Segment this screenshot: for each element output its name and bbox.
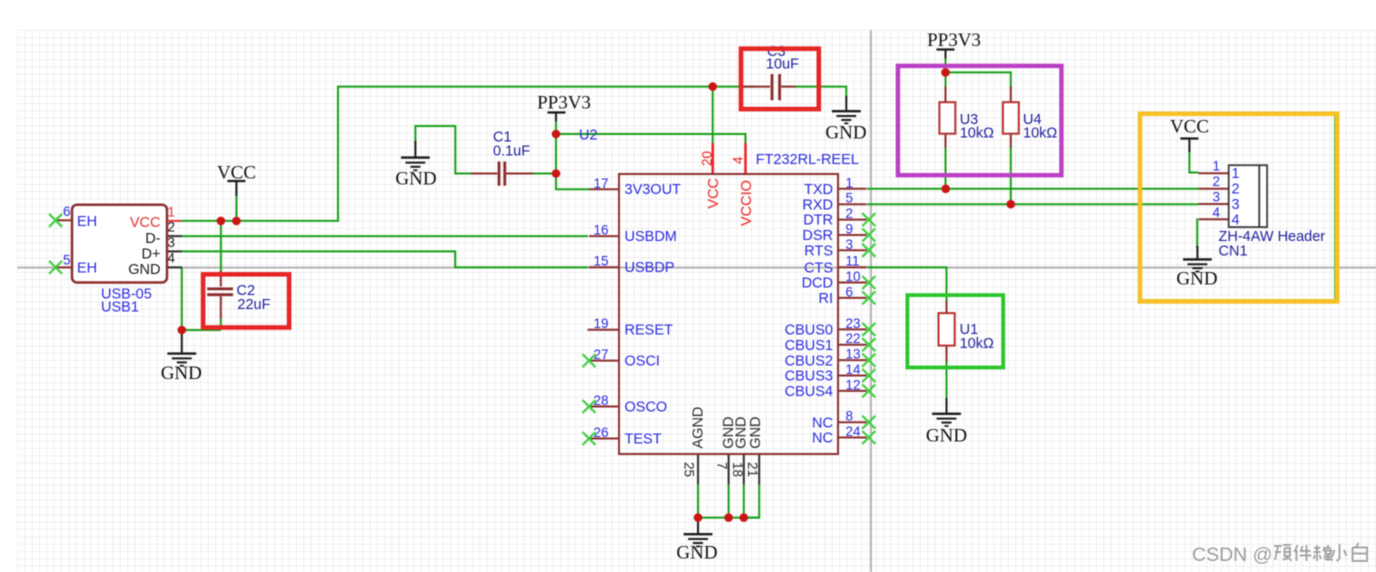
svg-text:8: 8 — [846, 409, 854, 424]
svg-text:GND: GND — [733, 416, 749, 448]
svg-text:25: 25 — [682, 462, 697, 477]
svg-text:6: 6 — [63, 204, 71, 219]
svg-text:USBDM: USBDM — [625, 229, 677, 245]
svg-text:GND: GND — [161, 363, 202, 384]
svg-text:15: 15 — [593, 254, 608, 269]
svg-text:VCCIO: VCCIO — [739, 180, 755, 226]
svg-text:TXD: TXD — [804, 182, 833, 198]
svg-text:10uF: 10uF — [766, 57, 799, 73]
svg-text:4: 4 — [1212, 205, 1220, 220]
svg-text:DTR: DTR — [803, 213, 833, 229]
svg-text:27: 27 — [593, 347, 608, 362]
svg-text:TEST: TEST — [625, 432, 662, 448]
svg-text:26: 26 — [593, 425, 608, 440]
svg-text:12: 12 — [846, 377, 861, 392]
svg-text:D+: D+ — [142, 247, 161, 263]
svg-text:USB1: USB1 — [101, 300, 139, 316]
svg-text:GND: GND — [825, 123, 866, 144]
svg-text:GND: GND — [128, 262, 160, 278]
svg-text:FT232RL-REEL: FT232RL-REEL — [756, 152, 859, 168]
svg-text:1: 1 — [1212, 159, 1220, 174]
svg-text:CBUS1: CBUS1 — [785, 338, 833, 354]
svg-text:3: 3 — [1232, 197, 1240, 213]
svg-text:GND: GND — [748, 416, 764, 448]
svg-text:RXD: RXD — [802, 198, 833, 214]
svg-text:22: 22 — [846, 331, 861, 346]
svg-text:CBUS2: CBUS2 — [785, 354, 833, 370]
svg-text:OSCI: OSCI — [625, 354, 660, 370]
svg-text:AGND: AGND — [691, 407, 707, 449]
svg-text:NC: NC — [812, 431, 833, 447]
svg-text:CN1: CN1 — [1219, 244, 1248, 260]
svg-text:3: 3 — [168, 235, 176, 250]
svg-text:DSR: DSR — [802, 228, 833, 244]
svg-text:20: 20 — [699, 151, 714, 166]
svg-text:9: 9 — [846, 222, 854, 237]
svg-text:2: 2 — [846, 206, 854, 221]
svg-text:GND: GND — [676, 543, 717, 564]
svg-text:0.1uF: 0.1uF — [493, 144, 530, 160]
svg-text:EH: EH — [77, 261, 97, 277]
svg-text:5: 5 — [846, 191, 854, 206]
svg-text:GND: GND — [395, 169, 436, 190]
svg-text:1: 1 — [846, 175, 854, 190]
svg-text:4: 4 — [168, 251, 176, 266]
svg-text:RESET: RESET — [625, 323, 673, 339]
svg-text:CBUS4: CBUS4 — [785, 384, 833, 400]
svg-text:17: 17 — [593, 176, 608, 191]
svg-text:PP3V3: PP3V3 — [537, 93, 591, 114]
svg-text:23: 23 — [846, 316, 861, 331]
svg-text:EH: EH — [77, 214, 97, 230]
svg-text:1: 1 — [1232, 166, 1240, 182]
svg-text:10kΩ: 10kΩ — [960, 336, 994, 352]
svg-text:RTS: RTS — [804, 244, 833, 260]
svg-text:2: 2 — [1212, 174, 1220, 189]
svg-text:VCC: VCC — [1170, 117, 1209, 138]
svg-text:D-: D- — [145, 231, 160, 247]
svg-text:USBDP: USBDP — [625, 260, 675, 276]
svg-text:16: 16 — [593, 223, 608, 238]
svg-text:VCC: VCC — [706, 178, 722, 209]
svg-text:21: 21 — [745, 462, 760, 477]
svg-text:19: 19 — [593, 316, 608, 331]
svg-text:5: 5 — [63, 253, 71, 268]
svg-text:2: 2 — [1232, 182, 1240, 198]
svg-text:1: 1 — [168, 205, 176, 220]
svg-text:3: 3 — [846, 237, 854, 252]
svg-text:CTS: CTS — [804, 261, 833, 277]
svg-text:VCC: VCC — [217, 163, 256, 184]
svg-text:CBUS0: CBUS0 — [785, 323, 833, 339]
svg-text:10: 10 — [846, 269, 861, 284]
svg-text:11: 11 — [846, 254, 860, 269]
svg-text:VCC: VCC — [130, 215, 161, 231]
svg-text:22uF: 22uF — [237, 297, 270, 313]
svg-text:3: 3 — [1212, 190, 1220, 205]
svg-text:18: 18 — [730, 462, 745, 477]
svg-text:CBUS3: CBUS3 — [785, 369, 833, 385]
svg-text:GND: GND — [926, 426, 967, 447]
svg-text:RI: RI — [819, 291, 834, 307]
svg-text:7: 7 — [715, 462, 730, 470]
svg-text:13: 13 — [846, 347, 861, 362]
svg-text:GND: GND — [1176, 269, 1217, 290]
svg-text:4: 4 — [1232, 212, 1240, 228]
svg-text:10kΩ: 10kΩ — [1023, 126, 1057, 142]
svg-text:2: 2 — [168, 220, 176, 235]
svg-text:PP3V3: PP3V3 — [927, 30, 981, 51]
svg-text:4: 4 — [731, 156, 746, 164]
svg-text:CSDN @: CSDN @ — [1192, 544, 1272, 566]
svg-text:NC: NC — [812, 416, 833, 432]
svg-text:U2: U2 — [579, 128, 598, 144]
svg-text:10kΩ: 10kΩ — [960, 126, 994, 142]
svg-text:OSCO: OSCO — [625, 400, 668, 416]
svg-text:24: 24 — [846, 424, 862, 439]
svg-text:14: 14 — [846, 362, 862, 377]
svg-text:6: 6 — [846, 284, 854, 299]
svg-text:3V3OUT: 3V3OUT — [625, 182, 682, 198]
svg-text:DCD: DCD — [802, 276, 833, 292]
svg-text:28: 28 — [593, 393, 608, 408]
